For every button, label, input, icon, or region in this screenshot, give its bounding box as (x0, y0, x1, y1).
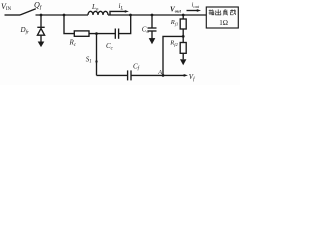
svg-text:Vf: Vf (189, 73, 195, 82)
svg-text:1Ω: 1Ω (219, 19, 228, 27)
wire Rf1 lead from rail (182, 15, 184, 19)
svg-text:Dfr: Dfr (20, 26, 29, 35)
inductor Lo (88, 11, 108, 15)
wire Rf1 to junction (182, 29, 184, 36)
node junction dot Co tap (151, 14, 154, 17)
ground (below diode) (38, 42, 44, 47)
svg-text:Vout: Vout (170, 6, 182, 14)
wire Rc to Cc (89, 33, 115, 35)
char 出 (216, 9, 221, 15)
output load value 1Ω (219, 19, 228, 27)
svg-text:iout: iout (192, 2, 200, 9)
inductor Lo label (91, 3, 99, 13)
S1 label (86, 55, 92, 64)
wire top rail (right of inductor) (108, 14, 206, 16)
svg-text:A: A (157, 69, 162, 76)
node junction dot feedback tap (182, 35, 185, 38)
capacitor Cf plate left (127, 70, 129, 80)
char 负 (223, 9, 228, 15)
svg-text:Cc: Cc (106, 42, 114, 51)
resistor Rf1 label (170, 19, 179, 26)
capacitor Cf plate right (130, 70, 132, 80)
current arrow iout shaft (187, 10, 198, 12)
char 输 (209, 10, 214, 16)
capacitor Co plate top (148, 27, 157, 29)
wire Co lead from rail (151, 15, 153, 28)
switch Qf blade (20, 9, 36, 15)
output load text 输出负载 (drawn strokes) (209, 9, 236, 15)
node junction dot diode tap (40, 14, 43, 17)
node junction dot damping-branch left (63, 14, 66, 17)
capacitor Co label (142, 26, 150, 35)
node Vin input label (1, 2, 12, 12)
node junction dot S1 tap (95, 32, 98, 35)
wire input lead (5, 14, 21, 16)
current iL label (119, 2, 124, 11)
output load box (206, 7, 238, 28)
wire top rail (left of inductor) (36, 14, 89, 16)
wire damping branch left vertical (64, 15, 74, 34)
capacitor Cc label (106, 42, 114, 51)
wire S1 branch vertical (96, 34, 98, 76)
ground (below Co) (149, 38, 155, 43)
wire bottom rail right (131, 74, 185, 76)
current arrow S1 head (95, 61, 98, 65)
svg-text:Qf: Qf (34, 1, 43, 12)
diode Dfr triangle (37, 28, 44, 35)
wire bottom rail left (97, 74, 128, 76)
capacitor Co plate bottom (148, 30, 157, 32)
arrow Vf head (184, 74, 188, 77)
current iout label (192, 2, 200, 9)
node Vf label (189, 73, 195, 82)
wire junction to Rf2 (182, 36, 184, 42)
svg-text:Co: Co (142, 26, 150, 35)
current arrow iout head (197, 9, 201, 12)
svg-text:S1: S1 (86, 55, 92, 64)
wire Co to ground (151, 31, 153, 38)
ground (below Rf2) (181, 60, 186, 65)
capacitor Cf label (133, 62, 140, 71)
resistor Rf2 label (169, 40, 178, 47)
capacitor Cc plate right (118, 29, 120, 39)
svg-text:Rf2: Rf2 (169, 40, 178, 47)
svg-text:VIN: VIN (1, 2, 12, 12)
node junction dot Vout / Rf1 tap (182, 14, 185, 17)
current arrow iL head (125, 10, 129, 13)
resistor Rf1 (180, 19, 186, 29)
svg-text:iL: iL (119, 2, 124, 11)
node junction dot damping-branch right (129, 14, 132, 17)
wire feedback tap to node A (163, 36, 183, 75)
resistor Rc (74, 31, 89, 36)
svg-text:Rf1: Rf1 (170, 19, 179, 26)
wire Cc up to rail (119, 15, 131, 34)
resistor Rf2 (180, 43, 186, 54)
switch Qf label (34, 1, 43, 12)
capacitor Cc plate left (114, 29, 116, 39)
wire Rf2 to ground (182, 53, 184, 59)
current arrow iL shaft (110, 11, 126, 15)
svg-text:Rc: Rc (69, 39, 77, 48)
wire diode to ground (40, 35, 42, 42)
node Vout label (170, 6, 182, 14)
svg-text:Cf: Cf (133, 62, 140, 71)
diode Dfr cathode bar (37, 26, 44, 28)
wire diode lead from rail (40, 15, 42, 27)
node A junction dot (162, 74, 165, 77)
diode Dfr label (20, 26, 29, 35)
resistor Rc label (69, 39, 77, 48)
char 载 (230, 9, 236, 15)
node A label (157, 69, 162, 76)
